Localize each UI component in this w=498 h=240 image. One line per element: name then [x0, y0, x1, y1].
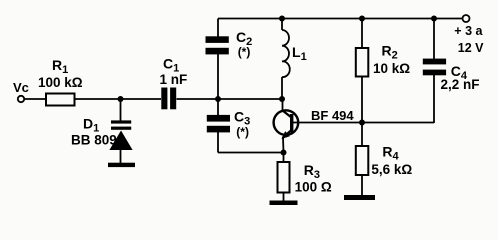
wire R2/R4 column: [361, 19, 363, 196]
svg-text:100 kΩ: 100 kΩ: [38, 75, 83, 90]
wire collector/emitter column: [282, 77, 284, 201]
svg-text:12 V: 12 V: [458, 41, 484, 55]
svg-text:100 Ω: 100 Ω: [295, 180, 332, 195]
wire base line: [292, 122, 434, 124]
capacitor C1: [161, 88, 176, 110]
inductor L1: [282, 19, 290, 78]
svg-text:(*): (*): [236, 125, 249, 139]
svg-text:Vc: Vc: [13, 80, 29, 95]
svg-text:L1: L1: [292, 44, 307, 63]
resistor R3: [278, 162, 290, 193]
ground (R3): [270, 201, 298, 206]
transistor Q1 BF 494: [274, 110, 299, 139]
svg-text:10 kΩ: 10 kΩ: [373, 61, 410, 76]
node main/C2C3: [215, 96, 221, 102]
wire D1 column: [120, 99, 122, 163]
wire C4 column: [433, 19, 435, 124]
svg-text:R1: R1: [52, 57, 68, 76]
node main/D1: [118, 96, 124, 102]
svg-text:2,2 nF: 2,2 nF: [441, 77, 480, 92]
wire emitter line: [218, 152, 284, 154]
svg-text:BF 494: BF 494: [311, 108, 354, 123]
ground (D1): [108, 163, 135, 167]
svg-text:1 nF: 1 nF: [160, 72, 188, 87]
wire top supply rail: [218, 18, 463, 20]
wire main horizontal line Vc node: [25, 98, 283, 100]
svg-text:R4: R4: [382, 144, 399, 163]
node main/collector: [279, 96, 285, 102]
ground (R4): [344, 195, 375, 200]
resistor R4: [356, 146, 369, 175]
node rail/C4: [431, 16, 437, 22]
resistor R2: [356, 48, 369, 77]
svg-text:R2: R2: [382, 43, 398, 62]
svg-text:(*): (*): [238, 45, 251, 59]
svg-text:+ 3 a: + 3 a: [454, 24, 483, 38]
capacitor C2: [206, 36, 229, 54]
svg-text:R3: R3: [304, 162, 320, 181]
capacitor C3: [207, 115, 230, 133]
terminal +supply: [463, 15, 470, 22]
node base/R2R4: [359, 120, 365, 126]
wire C2/C3 column: [217, 19, 219, 153]
svg-text:5,6 kΩ: 5,6 kΩ: [371, 162, 412, 177]
resistor R1: [46, 94, 75, 106]
node emitter/R3: [281, 150, 287, 156]
varicap diode D1: [109, 120, 132, 150]
capacitor C4: [423, 59, 446, 76]
svg-text:BB 809: BB 809: [71, 133, 117, 148]
node rail/R2: [359, 16, 365, 22]
node rail/L1: [279, 16, 285, 22]
terminal Vc: [18, 96, 24, 102]
